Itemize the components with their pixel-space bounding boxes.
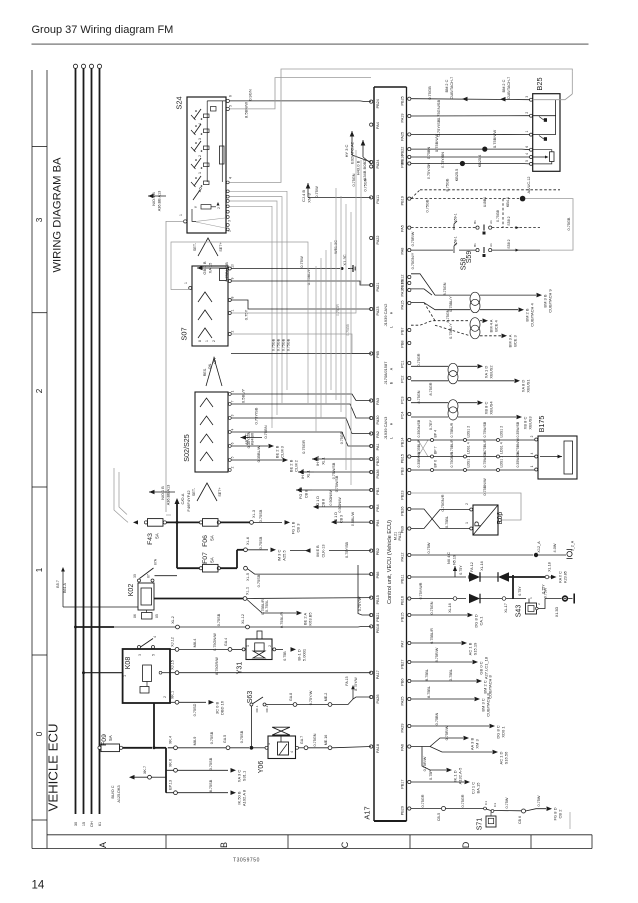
svg-text:1: 1 bbox=[205, 340, 209, 342]
svg-text:0.75BL: 0.75BL bbox=[445, 516, 449, 528]
svg-text:CUB/TACH 8: CUB/TACH 8 bbox=[486, 692, 491, 716]
svg-text:0.75W: 0.75W bbox=[299, 256, 304, 268]
svg-text:4.0W: 4.0W bbox=[553, 543, 557, 552]
svg-text:S31.1: S31.1 bbox=[242, 770, 247, 781]
svg-text:0.75GB: 0.75GB bbox=[496, 209, 500, 222]
svg-text:0.35BL/W: 0.35BL/W bbox=[257, 445, 261, 462]
svg-text:8.75BL: 8.75BL bbox=[425, 669, 429, 681]
svg-text:1: 1 bbox=[530, 465, 534, 467]
svg-text:0.5BL/Y: 0.5BL/Y bbox=[241, 389, 246, 404]
svg-text:0.75GN/W: 0.75GN/W bbox=[213, 633, 217, 651]
svg-text:4: 4 bbox=[500, 514, 504, 516]
svg-text:PA23: PA23 bbox=[376, 307, 380, 316]
svg-text:6: 6 bbox=[229, 95, 233, 97]
svg-text:S58 2: S58 2 bbox=[507, 239, 511, 248]
svg-text:0.75W: 0.75W bbox=[427, 542, 431, 553]
svg-text:3: 3 bbox=[35, 217, 44, 222]
svg-text:0.75GB: 0.75GB bbox=[346, 324, 350, 336]
svg-text:4: 4 bbox=[290, 751, 294, 753]
svg-text:1: 1 bbox=[246, 645, 250, 647]
svg-text:XL.1: XL.1 bbox=[322, 457, 326, 465]
svg-text:0.75W: 0.75W bbox=[314, 186, 319, 198]
svg-text:E02/ATC.A2: E02/ATC.A2 bbox=[350, 141, 355, 164]
svg-text:PA25: PA25 bbox=[401, 132, 405, 141]
svg-text:6: 6 bbox=[231, 442, 235, 444]
svg-text:GA.7: GA.7 bbox=[300, 736, 304, 744]
svg-text:0.75Y/GN: 0.75Y/GN bbox=[427, 163, 431, 180]
svg-text:0.35GN/SB: 0.35GN/SB bbox=[417, 419, 421, 437]
svg-text:XL.16: XL.16 bbox=[480, 561, 484, 570]
svg-text:PB26: PB26 bbox=[401, 507, 405, 516]
svg-text:0.75W/GN: 0.75W/GN bbox=[483, 451, 487, 468]
svg-text:B1: B1 bbox=[473, 220, 477, 224]
svg-text:H: H bbox=[390, 422, 394, 425]
svg-text:CJ.4 B: CJ.4 B bbox=[301, 190, 306, 202]
svg-text:0.75BN/W: 0.75BN/W bbox=[492, 130, 497, 148]
svg-text:0.75W/SB: 0.75W/SB bbox=[483, 421, 487, 437]
svg-text:0.75Y: 0.75Y bbox=[459, 565, 463, 575]
svg-text:3: 3 bbox=[231, 414, 235, 416]
svg-text:A25.5: A25.5 bbox=[282, 549, 287, 560]
svg-text:0.75BN: 0.75BN bbox=[427, 147, 431, 160]
svg-text:PB1: PB1 bbox=[376, 488, 380, 495]
svg-text:5A: 5A bbox=[108, 735, 113, 740]
svg-text:PB18: PB18 bbox=[376, 624, 380, 633]
svg-text:XJ.12: XJ.12 bbox=[171, 637, 175, 647]
svg-text:P80: P80 bbox=[401, 161, 405, 168]
svg-text:PB2: PB2 bbox=[376, 548, 380, 555]
svg-text:PB29: PB29 bbox=[401, 806, 405, 815]
svg-text:PB3: PB3 bbox=[401, 468, 405, 475]
svg-text:S59-1: S59-1 bbox=[454, 213, 458, 222]
svg-text:S59: S59 bbox=[466, 251, 473, 264]
svg-text:ME-2: ME-2 bbox=[324, 693, 328, 702]
svg-text:K02: K02 bbox=[128, 584, 135, 597]
svg-text:0.75GR: 0.75GR bbox=[461, 794, 465, 807]
svg-text:0.75GN/R: 0.75GN/R bbox=[441, 494, 445, 511]
svg-text:XL.5: XL.5 bbox=[245, 573, 250, 581]
svg-text:XL.6: XL.6 bbox=[245, 537, 250, 545]
svg-text:2: 2 bbox=[198, 155, 202, 157]
svg-text:8.75GR/W: 8.75GR/W bbox=[215, 657, 219, 675]
svg-text:0.75GB: 0.75GB bbox=[277, 338, 281, 351]
svg-text:PA30: PA30 bbox=[376, 416, 380, 425]
svg-text:XBUS1: XBUS1 bbox=[526, 379, 531, 393]
svg-text:0.75Y/W: 0.75Y/W bbox=[358, 596, 362, 611]
svg-text:0.75Y/W: 0.75Y/W bbox=[309, 690, 313, 705]
svg-text:0: 0 bbox=[35, 731, 44, 736]
svg-text:XL.3: XL.3 bbox=[251, 510, 256, 518]
svg-text:S07: S07 bbox=[180, 327, 189, 340]
svg-text:XM-3: XM-3 bbox=[307, 192, 312, 202]
svg-text:P84: P84 bbox=[376, 520, 380, 527]
svg-text:0.75Y/WR: 0.75Y/WR bbox=[419, 582, 423, 599]
svg-text:0.75Y/SB: 0.75Y/SB bbox=[345, 542, 349, 559]
svg-text:PA25: PA25 bbox=[401, 697, 405, 706]
svg-text:0.75W: 0.75W bbox=[505, 797, 509, 808]
svg-text:PA11: PA11 bbox=[376, 195, 380, 204]
svg-text:S02/S25: S02/S25 bbox=[182, 434, 191, 462]
svg-text:U-BB1: U-BB1 bbox=[483, 197, 487, 207]
svg-text:ON.: ON. bbox=[208, 363, 212, 369]
svg-text:A1: A1 bbox=[489, 243, 493, 247]
svg-text:A34B B0B2: A34B B0B2 bbox=[362, 159, 367, 180]
svg-text:0.35W/SB: 0.35W/SB bbox=[516, 421, 520, 437]
svg-text:CB-5: CB-5 bbox=[437, 813, 441, 821]
svg-text:P: P bbox=[473, 521, 483, 527]
svg-text:BCE 3: BCE 3 bbox=[513, 334, 518, 346]
svg-text:CUB/TACH 4: CUB/TACH 4 bbox=[530, 302, 535, 326]
svg-text:LDS1 2: LDS1 2 bbox=[467, 426, 471, 438]
svg-text:5A: 5A bbox=[210, 557, 215, 562]
svg-text:8: 8 bbox=[198, 340, 202, 342]
svg-text:SET+: SET+ bbox=[218, 487, 222, 496]
svg-text:PA26: PA26 bbox=[376, 695, 380, 704]
svg-text:GA.8: GA.8 bbox=[289, 693, 293, 701]
svg-text:LDS1 2: LDS1 2 bbox=[500, 426, 504, 438]
svg-text:BA.15: BA.15 bbox=[476, 782, 481, 794]
svg-text:PB21: PB21 bbox=[376, 613, 380, 622]
svg-text:SET+: SET+ bbox=[219, 242, 223, 251]
svg-text:4: 4 bbox=[229, 177, 233, 179]
svg-text:5: 5 bbox=[525, 160, 529, 162]
svg-text:A125.DK3: A125.DK3 bbox=[117, 785, 121, 802]
svg-text:PB19: PB19 bbox=[401, 196, 405, 205]
svg-text:GA.5: GA.5 bbox=[223, 735, 227, 743]
svg-text:K63.B5: K63.B5 bbox=[308, 612, 313, 626]
svg-text:VEHICLE ECU: VEHICLE ECU bbox=[46, 724, 61, 812]
svg-text:0.75GN/Y: 0.75GN/Y bbox=[411, 252, 415, 269]
svg-text:PA2: PA2 bbox=[376, 431, 380, 438]
svg-text:3: 3 bbox=[138, 654, 142, 656]
svg-text:0.75BN/W: 0.75BN/W bbox=[483, 478, 487, 496]
svg-text:0.75P: 0.75P bbox=[429, 770, 433, 780]
svg-text:1: 1 bbox=[198, 172, 202, 174]
svg-text:0.5GN/W: 0.5GN/W bbox=[329, 490, 333, 506]
svg-text:NX 4 C: NX 4 C bbox=[447, 552, 451, 564]
svg-text:0.75W: 0.75W bbox=[537, 795, 541, 806]
svg-text:FG 1 D: FG 1 D bbox=[316, 496, 320, 508]
svg-text:S63: S63 bbox=[247, 691, 254, 704]
svg-text:CUB/TACH-7: CUB/TACH-7 bbox=[450, 77, 454, 100]
svg-text:CB 8: CB 8 bbox=[322, 499, 326, 507]
svg-text:F09: F09 bbox=[101, 734, 108, 746]
svg-text:PA18: PA18 bbox=[376, 744, 380, 753]
svg-text:F07: F07 bbox=[202, 552, 209, 564]
svg-text:XL-17: XL-17 bbox=[504, 603, 508, 613]
svg-text:3: 3 bbox=[198, 138, 202, 140]
svg-text:CB 6: CB 6 bbox=[518, 816, 522, 824]
svg-text:0.75B: 0.75B bbox=[283, 651, 287, 661]
svg-text:0.75SB: 0.75SB bbox=[209, 757, 213, 770]
svg-text:OC.1: OC.1 bbox=[255, 705, 259, 712]
svg-text:CUB/TACH-7: CUB/TACH-7 bbox=[507, 77, 511, 100]
svg-text:B: B bbox=[219, 842, 229, 848]
svg-text:0.75BL/R: 0.75BL/R bbox=[430, 628, 434, 644]
svg-text:PC3: PC3 bbox=[401, 397, 405, 404]
svg-text:1_2_A: 1_2_A bbox=[571, 540, 575, 551]
svg-text:1: 1 bbox=[231, 309, 235, 311]
svg-text:0.75BL/Y: 0.75BL/Y bbox=[306, 268, 311, 285]
svg-text:CB 3: CB 3 bbox=[340, 515, 344, 523]
svg-text:AA/UC-12: AA/UC-12 bbox=[527, 176, 531, 193]
svg-text:C: C bbox=[340, 841, 350, 848]
svg-text:B5.7: B5.7 bbox=[56, 580, 60, 587]
svg-text:5.0001: 5.0001 bbox=[302, 648, 307, 661]
svg-text:Control unit, VECU (Vehicle EC: Control unit, VECU (Vehicle ECU) bbox=[387, 520, 393, 604]
svg-text:PB14: PB14 bbox=[401, 438, 405, 447]
svg-text:A102.A 8: A102.A 8 bbox=[242, 789, 247, 806]
svg-text:2: 2 bbox=[35, 388, 44, 393]
svg-text:XJ.15: XJ.15 bbox=[171, 660, 175, 670]
svg-text:2: 2 bbox=[212, 340, 216, 342]
svg-text:8.75GB: 8.75GB bbox=[446, 178, 450, 191]
svg-text:B175: B175 bbox=[537, 416, 546, 433]
svg-text:PA22: PA22 bbox=[376, 236, 380, 245]
svg-text:A36.BB A13: A36.BB A13 bbox=[158, 191, 162, 211]
svg-text:61: 61 bbox=[98, 822, 102, 826]
svg-text:0.75GN: 0.75GN bbox=[364, 178, 368, 191]
svg-text:0.75BL: 0.75BL bbox=[449, 669, 453, 681]
svg-text:PB9: PB9 bbox=[401, 526, 405, 533]
svg-text:XBUS4: XBUS4 bbox=[489, 401, 494, 415]
svg-text:0.75GB: 0.75GB bbox=[287, 338, 291, 351]
svg-text:5: 5 bbox=[152, 654, 156, 656]
svg-text:0.75BN/W: 0.75BN/W bbox=[434, 134, 439, 152]
svg-text:H: H bbox=[390, 311, 394, 314]
svg-text:PA4: PA4 bbox=[376, 122, 380, 129]
svg-text:A1: A1 bbox=[489, 220, 493, 224]
svg-text:0.75SB: 0.75SB bbox=[258, 536, 263, 549]
svg-text:M8-4: M8-4 bbox=[193, 639, 197, 648]
svg-text:SET-: SET- bbox=[193, 242, 197, 251]
svg-text:NIO.1 B: NIO.1 B bbox=[161, 486, 165, 500]
svg-text:AB 1 C: AB 1 C bbox=[245, 433, 249, 445]
svg-text:S43: S43 bbox=[516, 605, 523, 618]
svg-text:Y31: Y31 bbox=[237, 662, 244, 675]
svg-text:PB4: PB4 bbox=[376, 504, 380, 511]
svg-text:XA 15: XA 15 bbox=[208, 262, 213, 273]
svg-text:0.75GN/R: 0.75GN/R bbox=[450, 451, 454, 467]
svg-text:8.75SB: 8.75SB bbox=[209, 779, 213, 792]
svg-text:0.75BL/Y: 0.75BL/Y bbox=[449, 296, 453, 312]
svg-text:0.75SD: 0.75SD bbox=[193, 703, 197, 716]
svg-text:87: 87 bbox=[147, 574, 151, 578]
svg-text:F43: F43 bbox=[147, 533, 154, 545]
svg-text:CB 3: CB 3 bbox=[296, 523, 301, 533]
svg-text:2: 2 bbox=[530, 435, 534, 437]
svg-text:0.75W: 0.75W bbox=[544, 587, 548, 598]
svg-text:9: 9 bbox=[231, 277, 235, 279]
svg-text:0.75BL/R: 0.75BL/R bbox=[450, 422, 454, 437]
svg-text:FG 1 D: FG 1 D bbox=[299, 487, 303, 499]
svg-text:F46F4YF42: F46F4YF42 bbox=[186, 490, 191, 512]
svg-text:0.75GB: 0.75GB bbox=[282, 338, 286, 351]
svg-text:0.75GB: 0.75GB bbox=[272, 338, 276, 351]
svg-text:OC.2: OC.2 bbox=[265, 705, 269, 712]
svg-text:PA16: PA16 bbox=[401, 288, 405, 297]
svg-text:0.35W/GN: 0.35W/GN bbox=[516, 451, 520, 468]
svg-text:4: 4 bbox=[231, 428, 235, 430]
svg-text:RES.: RES. bbox=[203, 368, 207, 376]
svg-text:PC2: PC2 bbox=[401, 376, 405, 383]
svg-text:SET-: SET- bbox=[192, 487, 196, 496]
svg-text:0.75GB: 0.75GB bbox=[427, 86, 432, 100]
svg-text:FA.12: FA.12 bbox=[470, 562, 474, 571]
svg-text:LDS1 4: LDS1 4 bbox=[500, 442, 504, 454]
svg-text:GB-1 B: GB-1 B bbox=[202, 261, 207, 274]
svg-text:S16.56: S16.56 bbox=[504, 751, 509, 764]
svg-text:0.75SB: 0.75SB bbox=[217, 613, 221, 626]
svg-text:10: 10 bbox=[231, 264, 235, 268]
svg-text:8.5BN/W: 8.5BN/W bbox=[244, 102, 249, 118]
svg-text:BM 2 C: BM 2 C bbox=[502, 79, 506, 92]
svg-text:87A: 87A bbox=[154, 558, 158, 565]
svg-text:XK.6: XK.6 bbox=[169, 759, 173, 767]
svg-text:GA.4: GA.4 bbox=[224, 638, 228, 646]
svg-text:D: D bbox=[461, 841, 471, 848]
svg-text:1: 1 bbox=[231, 390, 235, 392]
svg-text:NIO.1 B: NIO.1 B bbox=[152, 192, 156, 206]
svg-text:PB7: PB7 bbox=[401, 328, 405, 335]
svg-text:FG 1 D: FG 1 D bbox=[334, 512, 338, 524]
svg-text:T3059750: T3059750 bbox=[233, 858, 260, 864]
svg-text:A: A bbox=[98, 842, 108, 848]
svg-text:XM 3: XM 3 bbox=[475, 739, 480, 749]
svg-text:DH: DH bbox=[90, 821, 94, 827]
svg-text:XL.2: XL.2 bbox=[171, 616, 175, 624]
svg-text:0.75R/W: 0.75R/W bbox=[445, 725, 449, 740]
svg-text:85: 85 bbox=[155, 614, 159, 618]
svg-text:0.75SB: 0.75SB bbox=[210, 731, 214, 744]
svg-text:J1939 CAN3: J1939 CAN3 bbox=[383, 416, 388, 439]
svg-text:PA15: PA15 bbox=[401, 301, 405, 310]
svg-text:PA5: PA5 bbox=[401, 225, 405, 232]
svg-text:CA.1: CA.1 bbox=[479, 616, 484, 626]
svg-text:PA8: PA8 bbox=[401, 248, 405, 255]
svg-text:PA17: PA17 bbox=[376, 670, 380, 679]
svg-text:8.75GR: 8.75GR bbox=[429, 382, 433, 395]
svg-text:5: 5 bbox=[229, 105, 233, 107]
svg-text:A17: A17 bbox=[363, 806, 372, 819]
svg-text:0.75GN: 0.75GN bbox=[352, 173, 356, 186]
svg-text:X12_A: X12_A bbox=[537, 541, 541, 553]
svg-text:8: 8 bbox=[231, 296, 235, 298]
svg-text:PC4: PC4 bbox=[401, 412, 405, 419]
svg-text:LDS1 4: LDS1 4 bbox=[467, 442, 471, 454]
svg-text:2: 2 bbox=[231, 466, 235, 468]
svg-text:XBUS2: XBUS2 bbox=[489, 365, 494, 379]
svg-text:30: 30 bbox=[74, 822, 78, 826]
svg-text:PB17: PB17 bbox=[401, 780, 405, 789]
svg-text:DBD 16: DBD 16 bbox=[220, 700, 225, 715]
svg-text:5A: 5A bbox=[210, 535, 215, 540]
svg-text:KA 0 C: KA 0 C bbox=[559, 571, 563, 583]
svg-text:XK.4: XK.4 bbox=[169, 736, 173, 744]
svg-text:0.75GN/SB: 0.75GN/SB bbox=[436, 100, 441, 121]
svg-text:Group 37 Wiring diagram FM: Group 37 Wiring diagram FM bbox=[32, 24, 174, 36]
svg-text:PA6: PA6 bbox=[401, 744, 405, 751]
svg-text:1: 1 bbox=[184, 282, 188, 284]
svg-text:Y06: Y06 bbox=[258, 761, 265, 774]
svg-text:1: 1 bbox=[123, 675, 127, 677]
svg-text:PA12: PA12 bbox=[401, 553, 405, 562]
svg-text:2: 2 bbox=[231, 330, 235, 332]
svg-text:CUB/TACH 9: CUB/TACH 9 bbox=[548, 288, 553, 312]
svg-text:EP.13: EP.13 bbox=[169, 780, 173, 790]
svg-text:PA19: PA19 bbox=[401, 114, 405, 123]
svg-text:K84 B6: K84 B6 bbox=[251, 433, 255, 445]
svg-text:1: 1 bbox=[35, 567, 44, 572]
svg-text:LDS1 1: LDS1 1 bbox=[467, 456, 471, 468]
svg-text:2: 2 bbox=[465, 503, 469, 505]
svg-text:0.75Y/BN: 0.75Y/BN bbox=[441, 152, 445, 168]
svg-text:8.75R/W: 8.75R/W bbox=[435, 647, 439, 662]
svg-text:0.5GN/W: 0.5GN/W bbox=[338, 497, 342, 513]
svg-text:1: 1 bbox=[267, 743, 271, 745]
svg-text:XD0 1: XD0 1 bbox=[501, 726, 506, 738]
svg-text:PB23: PB23 bbox=[401, 491, 405, 500]
svg-text:5A: 5A bbox=[155, 533, 160, 538]
svg-text:KB4.1: KB4.1 bbox=[506, 197, 510, 207]
svg-text:PB27: PB27 bbox=[401, 660, 405, 669]
svg-text:A36.BB A13: A36.BB A13 bbox=[167, 485, 171, 505]
svg-text:1: 1 bbox=[525, 131, 529, 133]
svg-text:0.75GR: 0.75GR bbox=[340, 431, 344, 444]
svg-text:N5.19: N5.19 bbox=[453, 555, 457, 565]
svg-text:PA36: PA36 bbox=[376, 470, 380, 479]
svg-text:B61.A: B61.A bbox=[63, 583, 67, 593]
svg-text:86: 86 bbox=[133, 614, 137, 618]
svg-text:0.1: 0.1 bbox=[484, 801, 488, 806]
svg-text:XL.12: XL.12 bbox=[241, 614, 245, 624]
svg-text:0.75GR: 0.75GR bbox=[417, 353, 421, 366]
svg-text:0.75GN: 0.75GN bbox=[313, 733, 317, 746]
svg-text:XBUS3: XBUS3 bbox=[528, 416, 533, 430]
svg-text:2: 2 bbox=[228, 230, 232, 232]
svg-text:X1.3D: X1.3D bbox=[555, 607, 559, 618]
svg-text:0.75Y/SB: 0.75Y/SB bbox=[254, 407, 259, 424]
svg-text:30: 30 bbox=[133, 574, 137, 578]
svg-text:0.75GR: 0.75GR bbox=[301, 440, 306, 454]
svg-text:0.3: 0.3 bbox=[493, 803, 497, 808]
svg-text:PA24: PA24 bbox=[376, 160, 380, 169]
svg-text:CB 8: CB 8 bbox=[305, 490, 309, 498]
svg-text:S24: S24 bbox=[175, 96, 184, 109]
svg-text:BM 2 C: BM 2 C bbox=[445, 79, 449, 92]
svg-text:F06: F06 bbox=[202, 535, 209, 547]
svg-text:S58-1: S58-1 bbox=[454, 236, 458, 245]
svg-text:8.75GN: 8.75GN bbox=[443, 282, 447, 295]
svg-text:L: L bbox=[390, 326, 394, 328]
svg-text:0.75Y/SB: 0.75Y/SB bbox=[436, 119, 441, 136]
svg-text:4: 4 bbox=[530, 452, 534, 454]
svg-text:0.75BL/Y: 0.75BL/Y bbox=[449, 323, 453, 339]
svg-text:PB16: PB16 bbox=[401, 596, 405, 605]
svg-text:K08: K08 bbox=[125, 657, 132, 670]
svg-text:0.75BL: 0.75BL bbox=[264, 599, 269, 612]
svg-text:XL.18: XL.18 bbox=[548, 562, 552, 571]
svg-text:IH 0 A: IH 0 A bbox=[301, 468, 305, 479]
svg-text:XL.1: XL.1 bbox=[245, 587, 250, 595]
svg-text:8.75BL: 8.75BL bbox=[427, 686, 431, 698]
svg-text:J1939 CAN2: J1939 CAN2 bbox=[383, 303, 388, 326]
svg-text:15: 15 bbox=[82, 822, 86, 826]
svg-text:OFF: OFF bbox=[213, 356, 217, 364]
svg-text:M8-9: M8-9 bbox=[193, 737, 197, 746]
svg-text:3: 3 bbox=[228, 220, 232, 222]
svg-text:PA7: PA7 bbox=[401, 641, 405, 648]
